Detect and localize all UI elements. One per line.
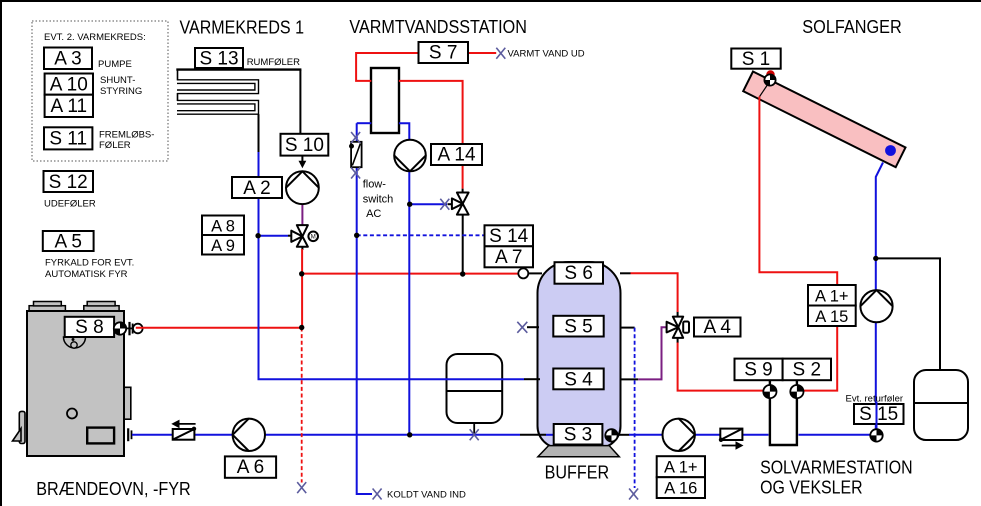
svg-text:switch: switch	[363, 194, 394, 206]
svg-text:A 10: A 10	[50, 75, 88, 96]
svg-text:flow-: flow-	[363, 179, 387, 191]
svg-text:A 8: A 8	[211, 218, 235, 236]
svg-text:S 6: S 6	[564, 263, 593, 284]
svg-text:FØLER: FØLER	[99, 140, 131, 151]
svg-text:OG VEKSLER: OG VEKSLER	[760, 478, 863, 498]
svg-text:S 4: S 4	[564, 370, 593, 391]
svg-text:A 11: A 11	[50, 96, 87, 117]
svg-text:AUTOMATISK FYR: AUTOMATISK FYR	[45, 269, 128, 280]
svg-text:A 14: A 14	[437, 145, 475, 166]
svg-text:SHUNT-: SHUNT-	[100, 75, 135, 86]
svg-text:A 16: A 16	[664, 480, 697, 498]
svg-text:S 10: S 10	[285, 135, 324, 156]
svg-text:PUMPE: PUMPE	[98, 59, 132, 70]
svg-text:A 15: A 15	[815, 308, 848, 326]
svg-text:S 3: S 3	[564, 425, 593, 446]
svg-text:A 7: A 7	[495, 247, 522, 268]
svg-text:FREMLØBS-: FREMLØBS-	[99, 130, 154, 141]
svg-text:S 12: S 12	[49, 172, 88, 193]
svg-text:S 15: S 15	[859, 404, 898, 425]
svg-text:VARMT VAND UD: VARMT VAND UD	[508, 49, 585, 60]
svg-text:S 14: S 14	[489, 226, 529, 247]
svg-text:S 13: S 13	[199, 49, 238, 70]
svg-text:SOLFANGER: SOLFANGER	[802, 17, 902, 37]
svg-text:UDEFØLER: UDEFØLER	[44, 199, 96, 210]
svg-text:STYRING: STYRING	[100, 86, 142, 97]
svg-text:FYRKALD FOR EVT.: FYRKALD FOR EVT.	[45, 258, 134, 269]
svg-text:S 9: S 9	[744, 360, 773, 381]
svg-text:A 1+: A 1+	[664, 459, 698, 477]
svg-text:S 7: S 7	[429, 43, 458, 64]
svg-text:A 3: A 3	[54, 49, 81, 70]
svg-text:VARMEKREDS 1: VARMEKREDS 1	[180, 18, 305, 38]
svg-text:RUMFØLER: RUMFØLER	[247, 57, 300, 68]
svg-text:VARMTVANDSSTATION: VARMTVANDSSTATION	[349, 17, 527, 37]
svg-text:A 9: A 9	[211, 237, 235, 255]
svg-text:BUFFER: BUFFER	[545, 463, 610, 483]
svg-text:SOLVARMESTATION: SOLVARMESTATION	[760, 458, 913, 478]
svg-text:S 2: S 2	[793, 360, 822, 381]
svg-text:Evt. returføler: Evt. returføler	[846, 394, 904, 405]
svg-text:A 6: A 6	[237, 457, 264, 478]
svg-text:S 11: S 11	[49, 129, 87, 150]
svg-text:S 5: S 5	[564, 317, 593, 338]
svg-text:S 1: S 1	[742, 49, 771, 70]
svg-text:S 8: S 8	[75, 317, 104, 338]
svg-text:A 4: A 4	[703, 317, 731, 338]
svg-text:AC: AC	[366, 208, 381, 220]
svg-text:A 1+: A 1+	[815, 288, 849, 306]
svg-text:BRÆNDEOVN, -FYR: BRÆNDEOVN, -FYR	[36, 479, 191, 499]
svg-text:EVT. 2. VARMEKREDS:: EVT. 2. VARMEKREDS:	[44, 32, 146, 43]
svg-text:KOLDT VAND IND: KOLDT VAND IND	[387, 490, 466, 501]
svg-text:M: M	[311, 235, 316, 241]
svg-text:A 2: A 2	[243, 178, 270, 199]
svg-text:A 5: A 5	[54, 232, 81, 253]
